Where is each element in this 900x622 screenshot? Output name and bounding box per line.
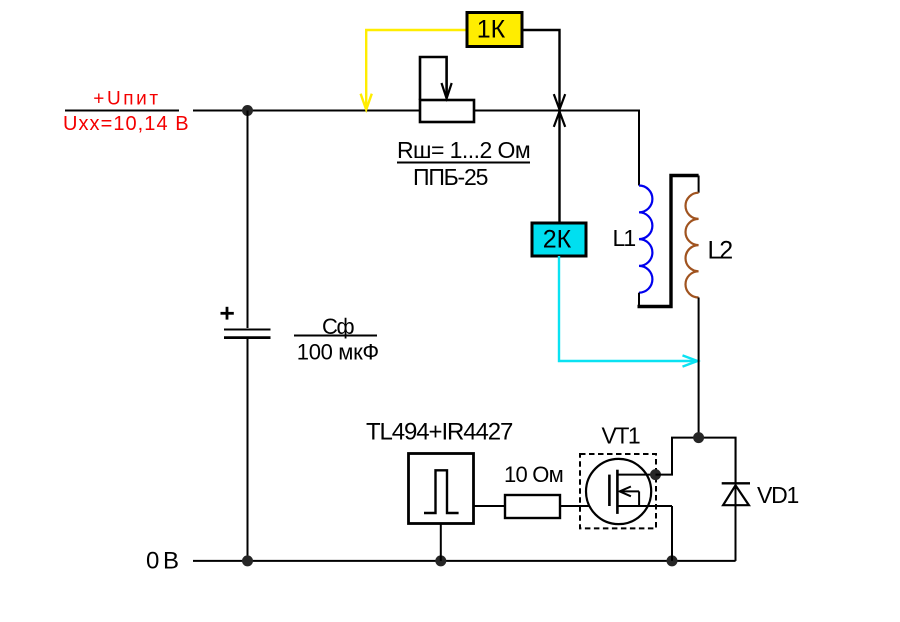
- transistor VT1 gate line: [608, 475, 611, 506]
- wire pot right to corner: [474, 110, 640, 112]
- junction dot L2 top rail: [693, 432, 704, 443]
- capacitor Cf fraction line: [294, 335, 377, 337]
- svg-text:VD1: VD1: [757, 482, 798, 508]
- wire thick link L1 to L2: [638, 176, 699, 307]
- probe 2K cyan arrowhead: [683, 355, 698, 366]
- wire cap branch lower: [247, 338, 249, 561]
- transistor VT1 drain line: [617, 474, 655, 476]
- probe 1K yellow wire: [366, 30, 467, 108]
- svg-text:0 В: 0 В: [146, 547, 178, 574]
- transistor VT1 source line: [617, 505, 672, 507]
- transistor VT1 dashed box: [580, 454, 656, 528]
- transistor VT1 circle: [586, 459, 651, 524]
- transistor VT1 channel line: [616, 470, 619, 514]
- svg-text:L1: L1: [613, 225, 636, 251]
- wire cap branch upper: [247, 111, 249, 329]
- capacitor Cf bottom plate: [224, 336, 271, 339]
- wire L1 bottom tail: [638, 293, 640, 307]
- svg-text:Rш= 1...2 Ом: Rш= 1...2 Ом: [397, 137, 530, 163]
- resistor Rsh label underline: [397, 162, 530, 164]
- generator pulse symbol: [424, 470, 459, 513]
- probe 2K up arrowhead: [554, 112, 565, 127]
- wire L2 down to drain rail: [698, 298, 700, 438]
- wire source elbow down: [671, 506, 673, 561]
- junction dot A: [242, 105, 253, 116]
- probe 1K yellow arrowhead: [361, 94, 372, 110]
- resistor Rsh potentiometer body: [420, 100, 474, 122]
- capacitor Cf plus sign: [221, 312, 234, 315]
- wire diode to bottom rail: [735, 438, 737, 561]
- inductor L1: [639, 186, 652, 293]
- wire main top rail: [193, 110, 420, 112]
- svg-text:Uxx=10,14 В: Uxx=10,14 В: [63, 113, 190, 135]
- node +Upit label underline: [65, 110, 179, 112]
- svg-text:+Uпит: +Uпит: [93, 89, 160, 110]
- wire node to 2K probe with up arrowhead: [558, 111, 560, 223]
- svg-text:2К: 2К: [543, 226, 572, 254]
- resistor Rsh wiper loop: [420, 57, 447, 100]
- diode VD1 triangle: [723, 485, 749, 505]
- svg-text:TL494+IR4427: TL494+IR4427: [366, 418, 513, 445]
- probe 2K box: [532, 223, 586, 256]
- wire corner down to L1: [638, 110, 640, 186]
- transistor VT1 substrate arrow: [620, 490, 639, 492]
- junction dot bottom cap: [242, 555, 253, 566]
- resistor 10 Ohm body: [505, 495, 560, 518]
- generator TL494 box: [409, 454, 474, 524]
- junction dot drain: [650, 469, 661, 480]
- svg-text:VT1: VT1: [602, 423, 640, 449]
- probe 1K box: [467, 13, 522, 47]
- probe 1K black wire to node: [522, 30, 560, 109]
- wire L2 top tail: [698, 176, 700, 193]
- wire bottom rail: [193, 560, 736, 562]
- wire drain elbow up: [656, 438, 736, 484]
- probe 2K cyan wire: [559, 256, 697, 361]
- svg-text:10 Ом: 10 Ом: [504, 462, 563, 487]
- capacitor Cf top plate: [224, 329, 271, 331]
- wire resistor to gate: [560, 505, 609, 507]
- probe 1K down arrowhead: [554, 94, 565, 109]
- svg-text:ППБ-25: ППБ-25: [413, 164, 488, 190]
- inductor L2: [685, 193, 698, 298]
- resistor Rsh wiper arrowhead: [442, 83, 452, 99]
- wire TL494 to resistor: [474, 505, 506, 507]
- svg-text:100 мкФ: 100 мкФ: [297, 340, 379, 365]
- svg-text:1К: 1К: [477, 16, 506, 44]
- svg-text:L2: L2: [708, 236, 733, 264]
- junction dot bottom TL494: [435, 555, 446, 566]
- junction dot bottom source: [667, 555, 678, 566]
- diode VD1 cathode bar: [722, 482, 750, 484]
- wire TL494 to ground: [440, 524, 442, 561]
